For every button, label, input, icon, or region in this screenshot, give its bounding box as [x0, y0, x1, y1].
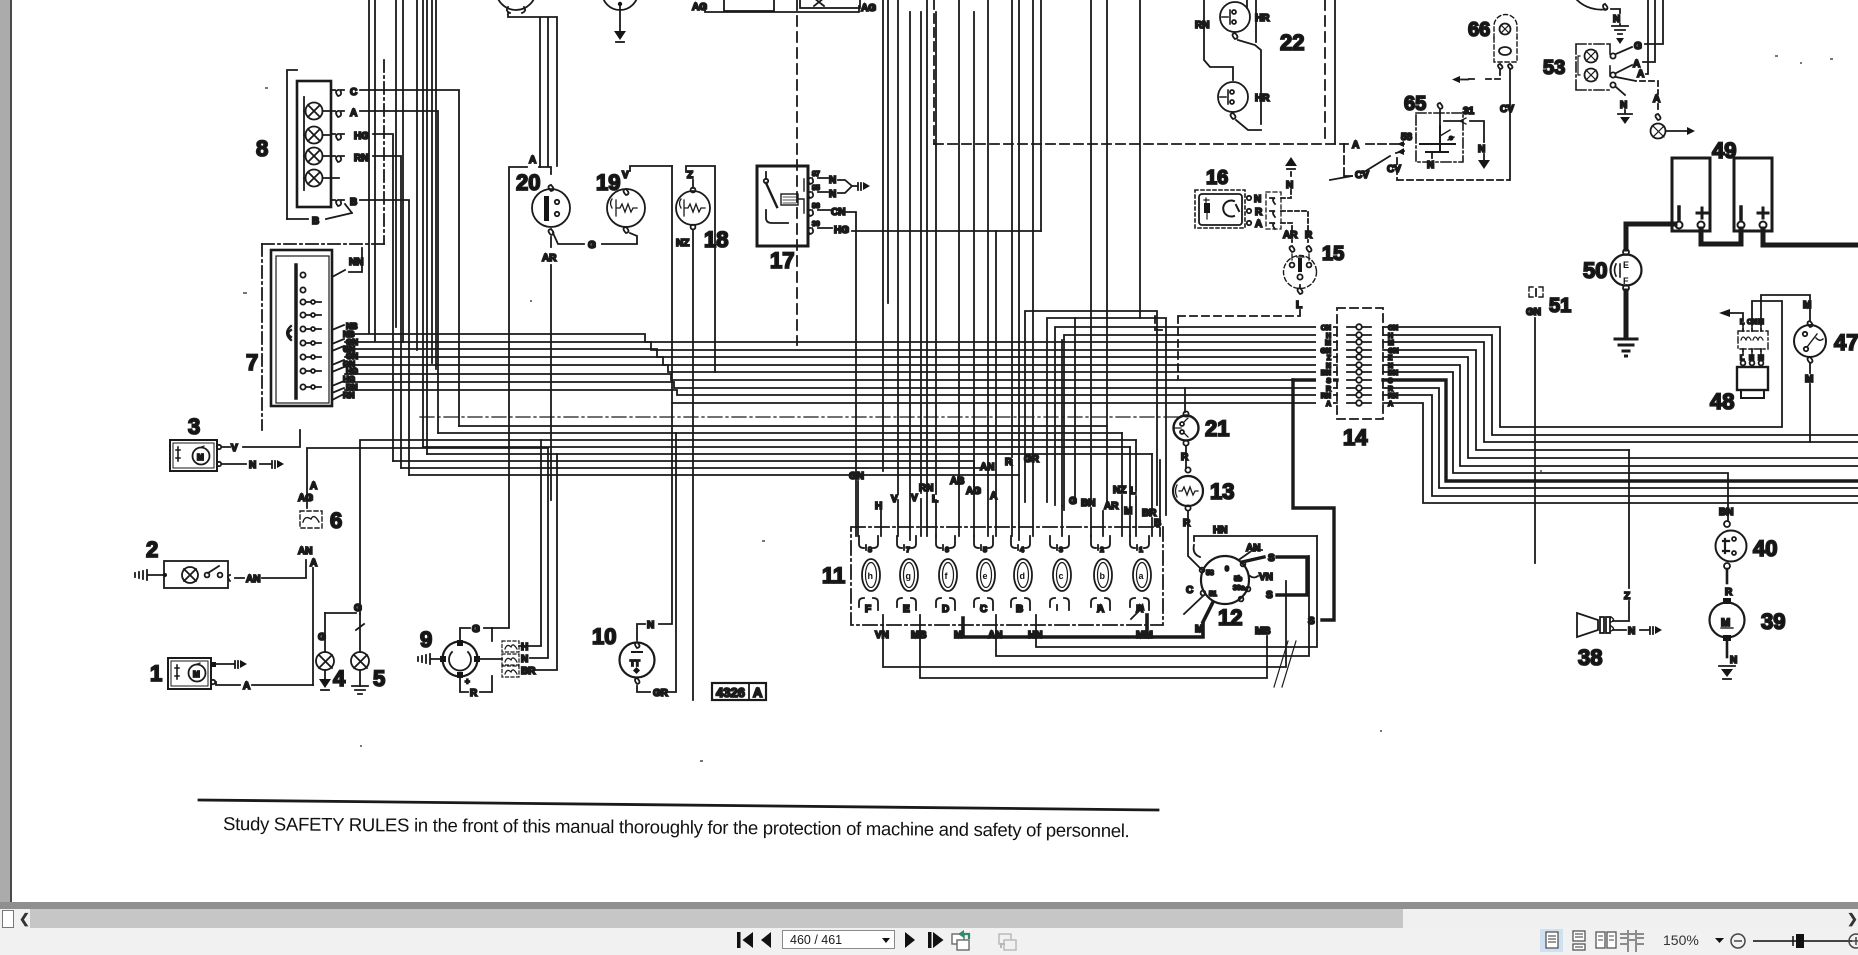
wire S thick after 14 to right edge: [1383, 380, 1858, 481]
wire band row BN: [345, 365, 1337, 372]
first page button: [737, 932, 753, 948]
headlight unit 22 lower: [1218, 82, 1248, 119]
fuse 6: [300, 511, 322, 528]
gauge lamp 18: [676, 188, 710, 230]
wire G bracket 4-5: [325, 440, 1136, 614]
next page button: [905, 932, 915, 948]
wire thick 50 to ground: [1624, 291, 1629, 338]
wire BR up from 9 fuses: [533, 454, 557, 670]
wire GR bracket from 10: [637, 433, 676, 699]
wire dashed L and boundary to 14: [1178, 310, 1300, 379]
next view icon (disabled): [999, 934, 1016, 950]
wire dash-dot boundary near 7/8: [262, 60, 384, 430]
wire MB row to key switch: [920, 615, 1267, 678]
node AR R labels above 15: [1283, 230, 1313, 241]
lamp unit top-middle (cut off): [602, 0, 638, 10]
wire row from 8 RN across: [401, 467, 988, 469]
wire V from 3: [222, 430, 300, 454]
wire row from top pair across: [423, 447, 1152, 454]
wire band row H: [1064, 335, 1337, 510]
wire M thick from key switch: [1203, 602, 1213, 622]
lamp unit top-left (cut off at page top): [496, 0, 536, 13]
control box 65: [1416, 103, 1463, 162]
wire M top bracket 47 to 48: [1761, 295, 1810, 321]
wire R after 14 to right edge: [1383, 388, 1858, 488]
wire row from 8 HG across: [393, 460, 974, 462]
ground of 50: [1615, 339, 1637, 356]
wire R drop to flasher 21: [1184, 388, 1186, 412]
wire G from 53: [1616, 0, 1663, 54]
relay 17: [757, 166, 808, 246]
headlamp box B (cut off): [800, 0, 860, 8]
gauge lamp 19: [607, 189, 645, 233]
wire M after 14 to right edge: [1383, 342, 1858, 442]
pin hooks of 8: [331, 90, 344, 206]
wire 13 down to key switch: [1188, 511, 1202, 570]
ground arrow under top-middle lamp: [614, 6, 626, 42]
wire GN after 14 to horn drop: [1383, 350, 1629, 450]
wire A lower from 53: [1616, 0, 1648, 81]
wire bracket over 19: [630, 166, 672, 171]
wire verticals from page top into band: [369, 0, 436, 454]
wire NZ drop from 18: [692, 230, 694, 700]
wire thick battery to regulator 50: [1626, 224, 1675, 249]
resistor lamp 13: [1173, 467, 1203, 510]
fuse b: [1091, 536, 1112, 615]
fuse a: [1128, 536, 1156, 615]
pin labels left of 14: [1321, 325, 1332, 408]
pump unit 1: [168, 658, 216, 689]
wire A to side lamp: [1640, 81, 1661, 120]
pin 85 of 17: [808, 185, 836, 200]
zoom slider: [1753, 940, 1852, 942]
flasher unit 47: [1794, 321, 1826, 363]
battery 49 right: [1734, 158, 1772, 231]
wire fuse bottom labels: [875, 624, 1203, 641]
wire link 22 upper to right rail: [1236, 40, 1261, 130]
key switch 12: [1200, 556, 1251, 604]
wire feed labels above fuse box: [849, 454, 1161, 529]
wire dashed arrow from 66: [1452, 70, 1500, 83]
wire CV from 66: [1500, 70, 1514, 180]
clock 10: [620, 642, 655, 684]
layout icon continuous: [1573, 931, 1585, 950]
wire A down from 6 to pump 1: [312, 568, 314, 685]
wire N after 14 to right edge: [1383, 365, 1858, 466]
wire N bracket from 10: [637, 166, 672, 640]
wire AG bracket: [705, 5, 859, 12]
wire C from key switch: [1184, 585, 1203, 614]
wire G bracket from 9: [460, 624, 492, 641]
zoom out: [1731, 934, 1745, 948]
fuse f: [936, 536, 957, 615]
wire Z after 14 to right edge: [1383, 357, 1858, 458]
ignition coil pack 48: [1737, 325, 1768, 398]
wire R dashed from 16: [1281, 211, 1308, 242]
bottom rule: [199, 800, 1158, 810]
fuse group H N BR at 9: [477, 641, 519, 677]
previous view icon: [952, 934, 969, 950]
wire mid feed stubs linking verticals: [996, 231, 1160, 523]
wire VN from key switch: [1250, 572, 1273, 583]
wire N join arrow of 17: [838, 180, 870, 193]
wire CN after 14 to relay block 48: [1383, 301, 1782, 427]
fuse d: [1011, 536, 1032, 615]
wire H up from 9 fuses: [519, 440, 541, 646]
connector bracket of 16: [1266, 192, 1281, 229]
wire VN row to key switch: [883, 581, 1286, 667]
connector 14: [1337, 308, 1383, 419]
wire AN from key switch: [1240, 543, 1262, 559]
wire A upper from 53: [1616, 0, 1655, 73]
scan noise specks: [243, 55, 1833, 762]
wire L arrow of 48: [1719, 309, 1743, 321]
wire RN drop to 22: [1204, 0, 1233, 80]
wire dashed boundary x1325: [1324, 0, 1326, 141]
wire C from 8: [360, 90, 459, 426]
wire M bottom of 47: [1809, 364, 1811, 442]
wire A from 6 up: [307, 448, 548, 508]
wire band row A: [672, 402, 1337, 404]
headlight unit 22 upper: [1220, 2, 1250, 39]
wire thick battery to right edge: [1763, 229, 1858, 245]
wire dashed A-line to comp 65: [934, 140, 1404, 151]
fuse box 11: [851, 527, 1163, 625]
wire S thick from key switch: [1242, 553, 1275, 564]
wire CV diagonal to 65: [1330, 148, 1404, 181]
wire A from 1: [216, 681, 313, 692]
wire bracket over 18: [686, 166, 715, 372]
fuse-relay box 7: [271, 250, 332, 406]
zoom in: [1849, 934, 1858, 948]
wire N arrow from 38: [1613, 626, 1662, 637]
layout icon two-up continuous: [1620, 930, 1644, 952]
wire A dashed from 16: [1281, 223, 1292, 242]
last page button: [928, 932, 944, 948]
flasher 21: [1174, 411, 1199, 445]
pin 30 of 17: [808, 221, 849, 236]
lamp-switch unit 2: [163, 561, 228, 588]
wire thick S feed down to key switch loop: [1293, 380, 1334, 620]
wire Z stub over 18: [692, 180, 694, 188]
lamp 4: [316, 613, 334, 690]
wire MM stub: [1145, 615, 1149, 637]
fuse c: [1050, 536, 1071, 610]
wire 21 to 13: [1185, 446, 1187, 468]
wire dashed vertical right of 17: [796, 0, 798, 345]
wire short feed stubs into fuse box: [858, 460, 1160, 536]
wire dash-dot boundary y417: [420, 416, 1178, 418]
fuse e: [974, 536, 995, 615]
wire A from 8: [360, 111, 438, 433]
wire CV lower rail: [1387, 158, 1509, 180]
wire AN from 2: [228, 560, 306, 585]
wire G link 20-19: [553, 233, 637, 251]
fuse g: [897, 536, 918, 615]
wire A after 14 to right edge: [1383, 403, 1858, 503]
ground hatch left of 9: [418, 654, 440, 664]
wire RN from 8: [373, 156, 401, 468]
wire B return loop of 8: [287, 70, 352, 227]
wire loom slash marks: [1274, 641, 1296, 687]
horn 38: [1577, 613, 1614, 637]
wire band row S thin part: [345, 374, 1293, 380]
wire N dashed up from 16: [1281, 172, 1291, 198]
wire pair into BR/B drops: [1025, 311, 1166, 515]
node AN A labels below 6: [298, 546, 317, 569]
zoom dropdown arrow: [1715, 938, 1724, 943]
wire band row S thick part: [1293, 378, 1337, 381]
wire row from 8 C across: [459, 425, 1107, 427]
contact pins of 7: [287, 272, 321, 389]
wire arrow from 1: [216, 660, 247, 668]
wire HN row to key switch: [1036, 536, 1317, 647]
layout icon two-up: [1596, 932, 1616, 948]
wire band row RN: [345, 390, 1337, 395]
wire rows exiting 7 with codes: [332, 322, 358, 400]
page layout icon single (active): [1540, 929, 1563, 952]
wire verticals top at 1247 1256: [1247, 0, 1256, 42]
wire vertical x1335: [1334, 0, 1336, 144]
node A AG labels above 6: [298, 481, 317, 504]
lamp cluster 8: [297, 81, 331, 207]
connector 15: [1284, 246, 1317, 294]
wire row from 8 A across: [438, 432, 1122, 434]
wire CN from 17: [846, 212, 856, 536]
regulator 50: [1611, 249, 1642, 291]
wire AR drop from 20: [550, 237, 552, 500]
cigar lighter 40: [1716, 521, 1747, 569]
wire row from 8 B across: [409, 474, 1019, 476]
wire long verticals top-middle: [1091, 0, 1140, 501]
wire dashed box left of 21: [1155, 316, 1163, 330]
pin labels right of 14: [1388, 325, 1399, 408]
wire bracket under top-left lamp: [508, 13, 557, 167]
node L CN M labels of 48: [1740, 319, 1764, 362]
wire band row R: [345, 382, 1337, 388]
wire Z from 38: [1613, 450, 1630, 621]
wire H after 14 to right edge: [1383, 335, 1858, 435]
headlamp arc top right: [1577, 0, 1628, 44]
node M labels of 47: [1803, 300, 1813, 385]
pins N R A of 16: [1247, 194, 1263, 230]
wire band row M: [345, 334, 1337, 342]
wire thick S U-loop: [1277, 557, 1307, 595]
ground arrow over 16: [1285, 157, 1297, 169]
wire N arrow from 3: [222, 460, 284, 471]
wire R link 40 to 39: [1725, 569, 1733, 598]
wire 31 with N arrow: [1444, 118, 1490, 169]
wire band row Z: [345, 349, 1337, 357]
wire HG from 17: [852, 230, 1041, 232]
ground hatch left of 2: [135, 570, 163, 580]
tail lamp unit 53: [1576, 44, 1616, 90]
turn lamp 20: [532, 185, 570, 235]
wire dashed A corner to 65: [1344, 144, 1352, 176]
wire verticals from top edge to fuse feeds: [883, 0, 1041, 540]
lamp 5: [351, 614, 369, 694]
wire M thick bus fuse to switch: [963, 618, 1203, 637]
wire AN row to key switch: [996, 556, 1309, 656]
wire dashed boundary vertical x934: [933, 0, 935, 144]
wire MM arrow: [1131, 603, 1145, 619]
wire RN after 14 to right edge: [1383, 395, 1858, 496]
sender unit 3: [170, 440, 221, 471]
wire B from 8: [360, 200, 409, 475]
wire band row CN: [1055, 327, 1337, 505]
prev page button: [761, 932, 771, 948]
wire BN after 14 to lamp 40: [1383, 372, 1728, 521]
pin 87 of 17: [808, 171, 836, 186]
wiper motor 39: [1710, 598, 1745, 641]
side lamp with arrow: [1651, 124, 1696, 139]
wire N ground of 39: [1719, 641, 1737, 679]
beacon lamp 66: [1494, 15, 1517, 70]
wire HN to key switch: [1194, 525, 1317, 557]
wire band row GN: [345, 342, 1337, 350]
wire band row N: [345, 357, 1337, 365]
wire N ground from 53: [1616, 87, 1632, 124]
wire N up from 9 fuses: [530, 448, 548, 658]
wire A bracket above 20: [492, 155, 551, 628]
switch NN on 7: [332, 248, 363, 277]
wire GN drop from 51: [1534, 318, 1536, 563]
connector 51: [1529, 287, 1543, 297]
wire N stub below 65: [1427, 152, 1434, 171]
drawing number plate 4326 A: [712, 683, 766, 700]
pin 86 of 17: [808, 203, 845, 218]
wire thick battery link: [1701, 229, 1741, 244]
headlamp box A (cut off): [724, 0, 774, 11]
node H N BR labels: [521, 642, 536, 677]
glow plug unit 16: [1195, 190, 1245, 228]
battery 49 left: [1672, 158, 1710, 231]
dynamo 9: [440, 640, 480, 686]
wire HG from 8: [373, 134, 393, 461]
fuse h: [859, 536, 880, 615]
wire R bracket from 9: [460, 676, 492, 699]
